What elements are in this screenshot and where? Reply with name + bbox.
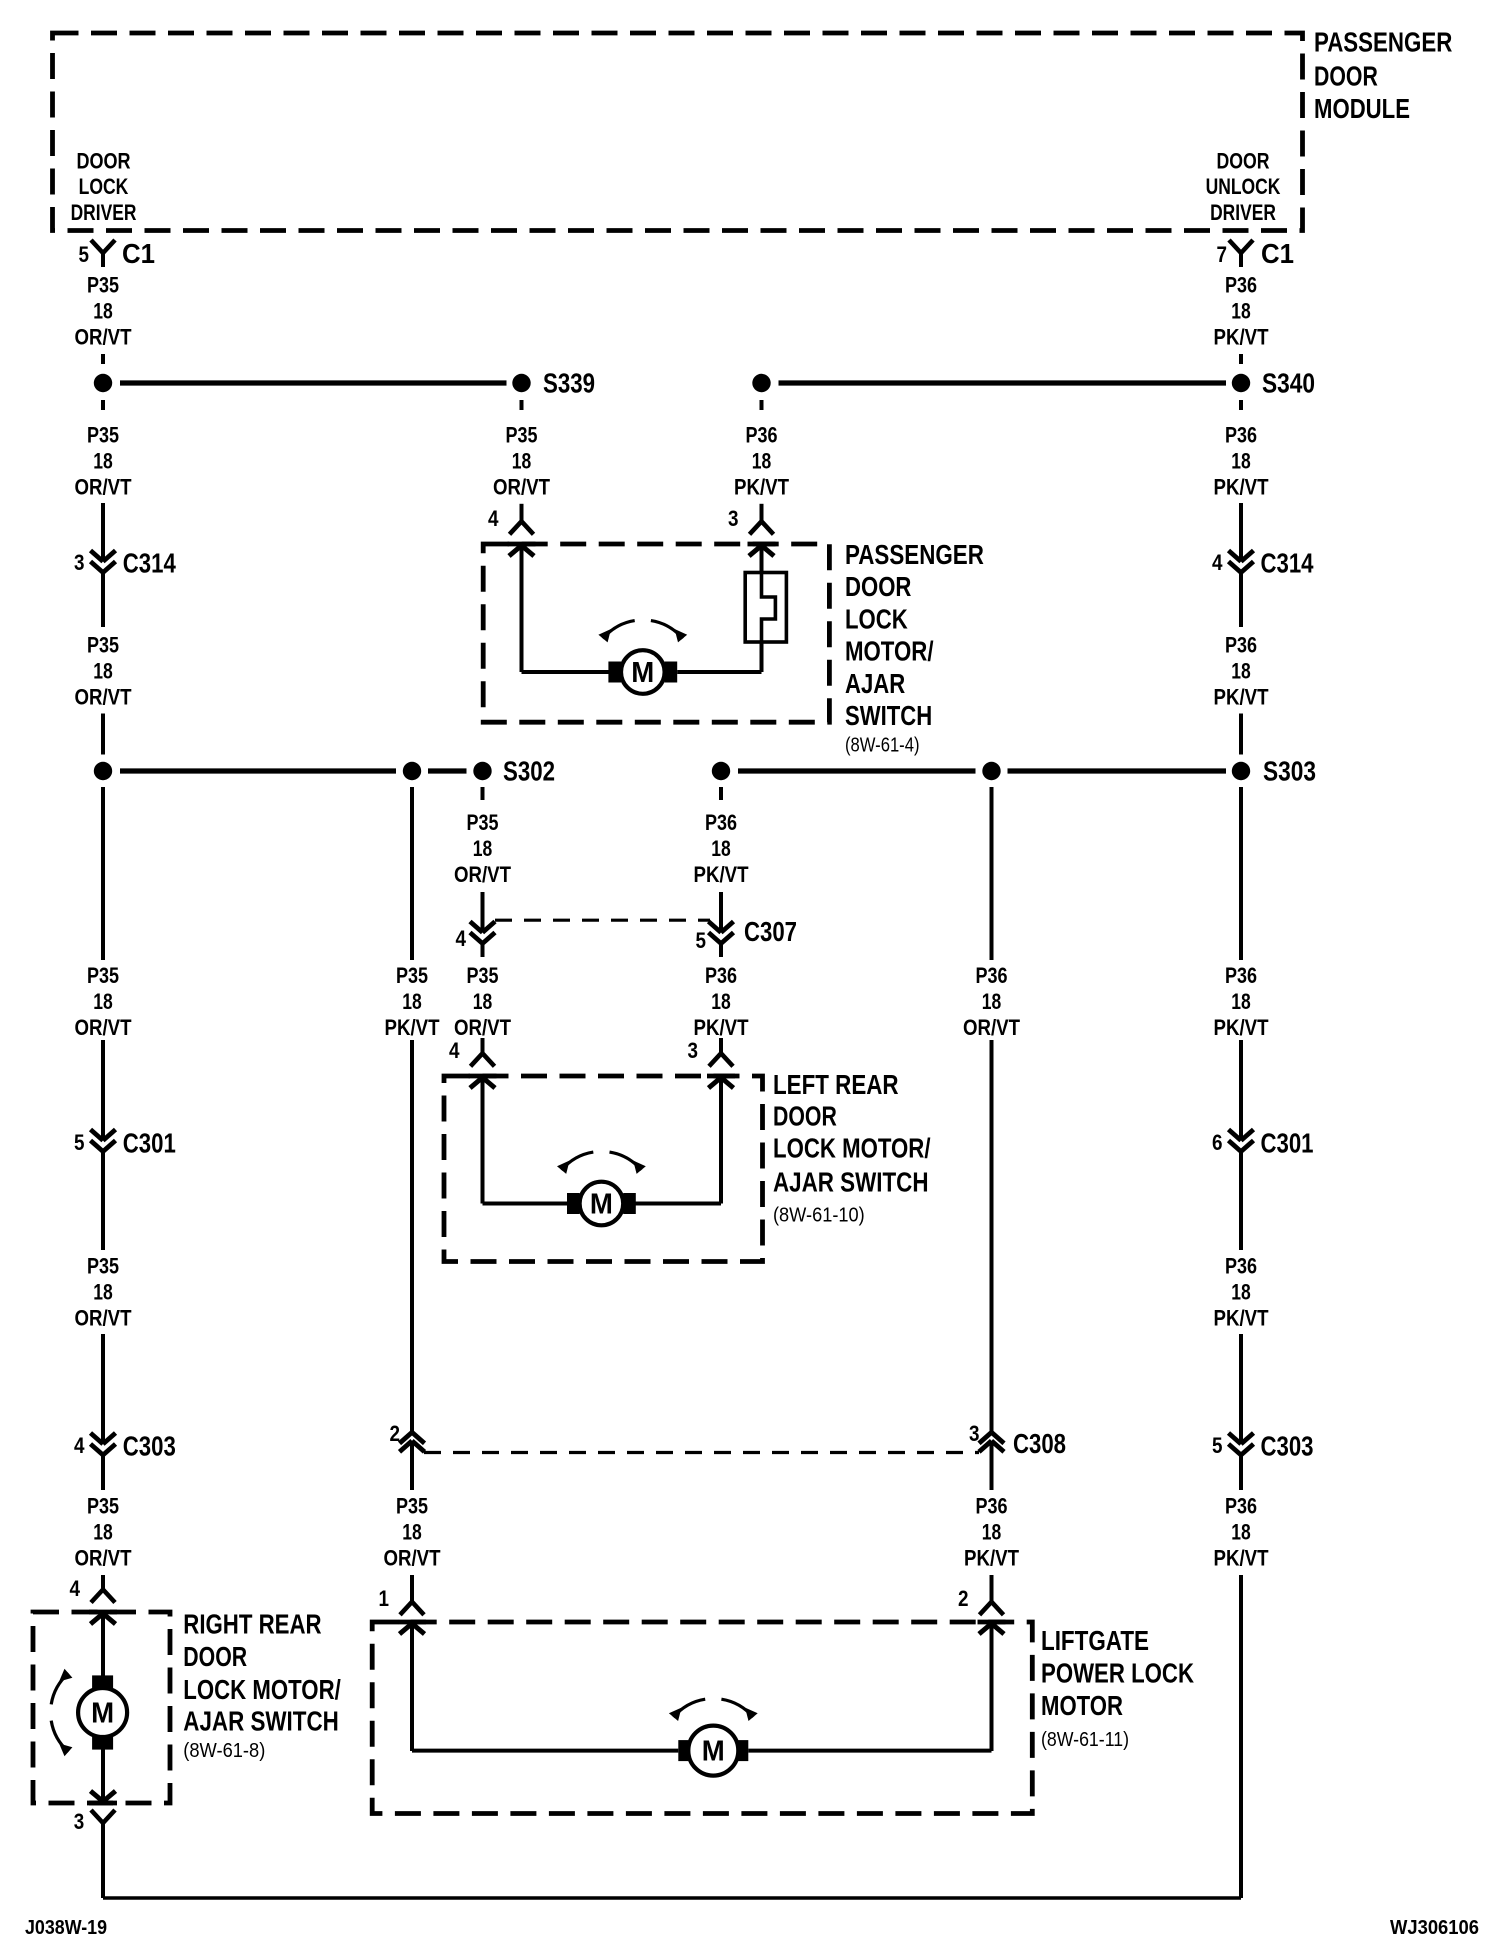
svg-text:OR/VT: OR/VT [454, 1015, 511, 1040]
svg-text:18: 18 [512, 448, 532, 473]
svg-text:P35: P35 [87, 632, 119, 657]
svg-text:4: 4 [456, 926, 467, 951]
svg-text:P35: P35 [396, 1493, 428, 1518]
svg-text:P36: P36 [976, 963, 1008, 988]
svg-text:7: 7 [1217, 242, 1228, 267]
svg-text:(8W-61-8): (8W-61-8) [183, 1740, 265, 1762]
svg-text:(8W-61-4): (8W-61-4) [845, 734, 920, 756]
svg-text:P35: P35 [467, 963, 499, 988]
svg-text:LOCK: LOCK [79, 174, 129, 199]
svg-text:LOCK: LOCK [845, 603, 908, 634]
svg-text:PASSENGER: PASSENGER [1314, 27, 1452, 58]
svg-text:S303: S303 [1263, 756, 1316, 787]
svg-text:18: 18 [711, 836, 731, 861]
svg-text:P36: P36 [1225, 1253, 1257, 1278]
svg-text:P36: P36 [1225, 272, 1257, 297]
svg-text:P35: P35 [506, 422, 538, 447]
svg-text:P36: P36 [1225, 1493, 1257, 1518]
svg-text:18: 18 [93, 1279, 113, 1304]
svg-text:3: 3 [728, 506, 739, 531]
svg-text:P36: P36 [1225, 632, 1257, 657]
svg-text:LOCK MOTOR/: LOCK MOTOR/ [183, 1674, 341, 1705]
svg-text:3: 3 [74, 1809, 85, 1834]
svg-text:P35: P35 [396, 963, 428, 988]
svg-text:18: 18 [473, 836, 493, 861]
svg-text:OR/VT: OR/VT [75, 325, 132, 350]
svg-text:P35: P35 [87, 1253, 119, 1278]
svg-text:P36: P36 [976, 1493, 1008, 1518]
svg-text:OR/VT: OR/VT [384, 1546, 441, 1571]
svg-text:P36: P36 [746, 422, 778, 447]
svg-text:DRIVER: DRIVER [1210, 200, 1276, 225]
svg-text:C301: C301 [1261, 1128, 1314, 1159]
svg-text:C303: C303 [1261, 1431, 1314, 1462]
svg-text:18: 18 [1231, 658, 1251, 683]
svg-text:18: 18 [1231, 989, 1251, 1014]
svg-text:C314: C314 [123, 548, 176, 579]
svg-text:MODULE: MODULE [1314, 93, 1410, 124]
svg-text:S339: S339 [543, 368, 595, 399]
svg-text:LIFTGATE: LIFTGATE [1041, 1625, 1149, 1656]
svg-text:18: 18 [402, 989, 422, 1014]
svg-text:MOTOR/: MOTOR/ [845, 636, 934, 667]
svg-text:LOCK MOTOR/: LOCK MOTOR/ [773, 1133, 931, 1164]
svg-text:PK/VT: PK/VT [734, 475, 789, 500]
svg-text:WJ306106: WJ306106 [1390, 1917, 1479, 1939]
svg-text:AJAR SWITCH: AJAR SWITCH [183, 1706, 338, 1737]
svg-text:LEFT REAR: LEFT REAR [773, 1069, 899, 1100]
svg-text:DOOR: DOOR [773, 1101, 837, 1132]
svg-text:C1: C1 [1261, 238, 1294, 269]
svg-text:18: 18 [93, 989, 113, 1014]
svg-text:SWITCH: SWITCH [845, 700, 932, 731]
svg-text:1: 1 [379, 1586, 390, 1611]
svg-text:18: 18 [93, 298, 113, 323]
svg-text:4: 4 [488, 506, 499, 531]
svg-text:J038W-19: J038W-19 [25, 1917, 107, 1939]
svg-text:OR/VT: OR/VT [454, 862, 511, 887]
svg-text:DOOR: DOOR [1314, 60, 1378, 91]
svg-text:DOOR: DOOR [845, 571, 911, 602]
svg-text:RIGHT REAR: RIGHT REAR [183, 1609, 321, 1640]
svg-text:18: 18 [1231, 448, 1251, 473]
svg-text:5: 5 [79, 242, 90, 267]
svg-text:18: 18 [93, 1519, 113, 1544]
svg-text:2: 2 [390, 1421, 401, 1446]
svg-text:M: M [590, 1189, 613, 1221]
svg-text:PK/VT: PK/VT [964, 1546, 1019, 1571]
svg-text:PK/VT: PK/VT [694, 1015, 749, 1040]
svg-text:18: 18 [711, 989, 731, 1014]
svg-text:18: 18 [1231, 298, 1251, 323]
svg-text:18: 18 [473, 989, 493, 1014]
svg-text:PK/VT: PK/VT [1214, 685, 1269, 710]
svg-text:DOOR: DOOR [76, 149, 130, 174]
svg-text:UNLOCK: UNLOCK [1206, 174, 1281, 199]
svg-text:DOOR: DOOR [183, 1641, 247, 1672]
svg-text:18: 18 [93, 448, 113, 473]
svg-text:PK/VT: PK/VT [1214, 1546, 1269, 1571]
svg-text:18: 18 [982, 989, 1002, 1014]
svg-text:PK/VT: PK/VT [1214, 475, 1269, 500]
svg-text:P36: P36 [705, 810, 737, 835]
svg-text:M: M [631, 657, 654, 689]
svg-text:C307: C307 [744, 916, 797, 947]
svg-text:2: 2 [958, 1586, 969, 1611]
svg-text:18: 18 [752, 448, 772, 473]
svg-text:C308: C308 [1013, 1428, 1066, 1459]
svg-text:18: 18 [93, 658, 113, 683]
svg-text:C1: C1 [122, 238, 155, 269]
svg-text:OR/VT: OR/VT [75, 1015, 132, 1040]
svg-text:POWER LOCK: POWER LOCK [1041, 1658, 1194, 1689]
svg-text:M: M [91, 1698, 114, 1730]
svg-text:(8W-61-11): (8W-61-11) [1041, 1729, 1129, 1751]
svg-text:AJAR SWITCH: AJAR SWITCH [773, 1167, 929, 1198]
svg-text:4: 4 [449, 1038, 460, 1063]
svg-text:PASSENGER: PASSENGER [845, 539, 984, 570]
svg-text:S302: S302 [503, 756, 555, 787]
svg-text:P36: P36 [1225, 422, 1257, 447]
svg-text:M: M [702, 1736, 725, 1768]
svg-text:3: 3 [969, 1421, 980, 1446]
svg-text:P35: P35 [87, 422, 119, 447]
svg-text:P36: P36 [1225, 963, 1257, 988]
svg-text:5: 5 [696, 928, 707, 953]
svg-text:OR/VT: OR/VT [75, 685, 132, 710]
svg-text:PK/VT: PK/VT [694, 862, 749, 887]
svg-text:4: 4 [1212, 550, 1223, 575]
svg-text:P35: P35 [87, 272, 119, 297]
svg-text:C303: C303 [123, 1431, 176, 1462]
svg-text:DOOR: DOOR [1217, 149, 1270, 174]
svg-text:C301: C301 [123, 1128, 176, 1159]
svg-text:18: 18 [1231, 1279, 1251, 1304]
svg-text:4: 4 [70, 1576, 81, 1601]
svg-text:PK/VT: PK/VT [1214, 1306, 1269, 1331]
svg-text:PK/VT: PK/VT [1214, 325, 1269, 350]
svg-text:OR/VT: OR/VT [75, 1306, 132, 1331]
svg-text:5: 5 [74, 1130, 85, 1155]
svg-text:DRIVER: DRIVER [71, 200, 137, 225]
svg-text:OR/VT: OR/VT [963, 1015, 1020, 1040]
svg-text:P35: P35 [87, 1493, 119, 1518]
svg-text:18: 18 [402, 1519, 422, 1544]
svg-text:6: 6 [1212, 1130, 1223, 1155]
svg-text:AJAR: AJAR [845, 668, 905, 699]
svg-text:4: 4 [74, 1433, 85, 1458]
svg-text:3: 3 [688, 1038, 699, 1063]
svg-text:18: 18 [982, 1519, 1002, 1544]
svg-text:(8W-61-10): (8W-61-10) [773, 1204, 865, 1226]
svg-text:S340: S340 [1262, 368, 1315, 399]
svg-text:18: 18 [1231, 1519, 1251, 1544]
svg-text:PK/VT: PK/VT [1214, 1015, 1269, 1040]
svg-text:P35: P35 [87, 963, 119, 988]
svg-text:PK/VT: PK/VT [385, 1015, 440, 1040]
svg-text:P36: P36 [705, 963, 737, 988]
svg-text:OR/VT: OR/VT [75, 475, 132, 500]
svg-text:OR/VT: OR/VT [75, 1546, 132, 1571]
svg-text:3: 3 [74, 550, 85, 575]
svg-text:OR/VT: OR/VT [493, 475, 550, 500]
svg-text:MOTOR: MOTOR [1041, 1690, 1123, 1721]
svg-text:C314: C314 [1261, 548, 1314, 579]
svg-text:5: 5 [1212, 1433, 1223, 1458]
svg-text:P35: P35 [467, 810, 499, 835]
